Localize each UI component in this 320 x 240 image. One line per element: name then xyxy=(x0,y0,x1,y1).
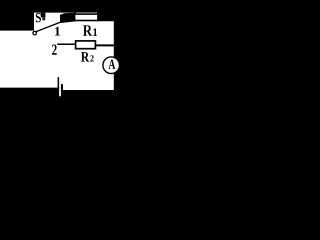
contact label 2 xyxy=(52,45,57,55)
ammeter letter A xyxy=(108,60,115,69)
wire: contact 2 to resistor R2 xyxy=(57,43,76,45)
resistor R1 box xyxy=(75,14,98,20)
wire: R1 to right rail xyxy=(97,19,115,21)
white paper area of schematic xyxy=(0,13,114,97)
label R2: letter R xyxy=(81,52,89,61)
contact label 1 xyxy=(55,27,60,36)
ammeter A body circle xyxy=(103,57,120,74)
label R1: subscript 1 xyxy=(93,28,97,36)
switch S blade (thrown toward contact 1) xyxy=(36,17,74,32)
small ring mark below band (scan artifact next to S) xyxy=(43,18,45,20)
black blob mark right of label S (band protrusion) xyxy=(41,13,46,18)
wire: R2 to right rail xyxy=(95,44,114,46)
figure background (black surround) xyxy=(0,0,135,137)
battery short plate (thick, merging into black region) xyxy=(61,84,63,91)
battery long plate xyxy=(57,77,59,88)
resistor R2 box xyxy=(76,41,96,49)
label S xyxy=(36,13,41,22)
label R1: letter R xyxy=(83,25,92,35)
wire: blade tip to resistor R1 (merged black mass under band) xyxy=(60,13,76,24)
switch S pivot node circle xyxy=(33,31,37,35)
label R2: subscript 2 xyxy=(90,55,93,61)
